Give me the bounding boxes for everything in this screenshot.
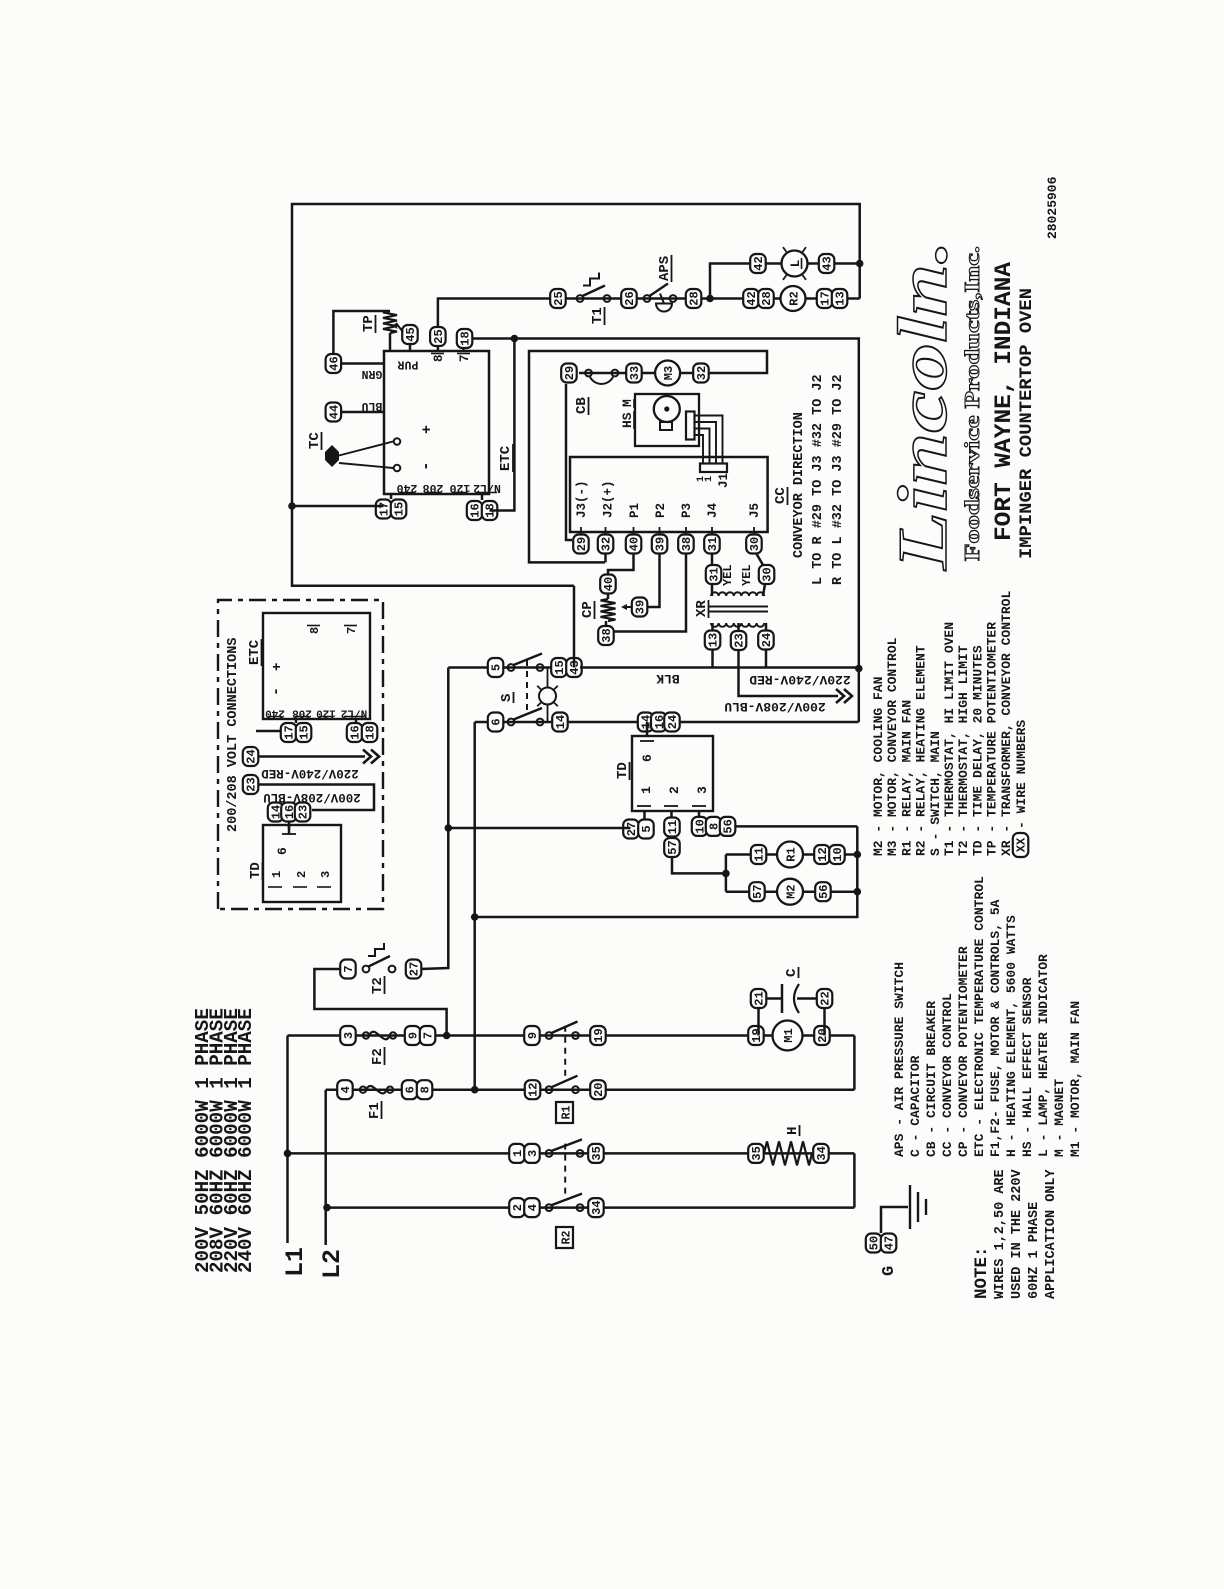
- svg-text:J4: J4: [706, 502, 720, 518]
- wire cluster to TDalt: [288, 821, 291, 829]
- wire XR sec top: [711, 584, 714, 596]
- tag 10-8-56 column: [692, 817, 708, 836]
- svg-text:40: 40: [628, 537, 642, 551]
- wire bus to S pole1: [573, 586, 576, 668]
- relay contact R2b: [546, 1204, 553, 1211]
- heating element H: [764, 1141, 812, 1165]
- tag 9 relay contact: [524, 1026, 540, 1045]
- tag 39 cp: [632, 598, 648, 617]
- svg-text:L - LAMP, HEATER INDICATOR: L - LAMP, HEATER INDICATOR: [1036, 954, 1051, 1157]
- svg-text:7: 7: [458, 354, 472, 362]
- pin TD-3: [698, 811, 701, 819]
- tag 31 cc: [704, 535, 720, 554]
- wire BLU alt: [258, 785, 374, 811]
- tag 33: [626, 364, 642, 383]
- wire heater row 35: [288, 1152, 855, 1155]
- switch S lamp: [539, 688, 556, 705]
- svg-text:29: 29: [575, 537, 589, 551]
- svg-text:CB - CIRCUIT BREAKER: CB - CIRCUIT BREAKER: [924, 1001, 939, 1157]
- svg-text:TD - TIME DELAY, 20 MINUTES: TD - TIME DELAY, 20 MINUTES: [970, 645, 985, 856]
- wire TC plus lead: [337, 442, 393, 457]
- tag 39 cc: [652, 535, 668, 554]
- pin TD-1: [643, 811, 646, 819]
- svg-text:7: 7: [342, 965, 356, 972]
- motor M3: [655, 361, 680, 386]
- svg-text:L1: L1: [281, 1247, 310, 1277]
- wire TC minus lead: [339, 463, 393, 468]
- svg-text:40: 40: [602, 577, 616, 591]
- svg-text:XR - TRANSFORMER, CONVEYOR CO: XR - TRANSFORMER, CONVEYOR CONTROL: [999, 591, 1014, 856]
- svg-text:28: 28: [688, 291, 702, 305]
- svg-text:27: 27: [408, 962, 422, 976]
- tag 35: [588, 1144, 604, 1163]
- wire 13 to BLK: [711, 650, 714, 668]
- wire 24 to BLK: [765, 650, 768, 668]
- tag 31 xr: [706, 565, 722, 584]
- tag 45: [402, 325, 418, 344]
- relay coil R1: [777, 842, 803, 868]
- svg-text:P2: P2: [654, 503, 668, 518]
- tag 16-18 alt: [347, 723, 363, 742]
- wire 17 to bus: [292, 505, 384, 508]
- svg-text:J5: J5: [748, 503, 762, 518]
- svg-text:5: 5: [640, 825, 654, 832]
- svg-text:HS - HALL EFFECT SENSOR: HS - HALL EFFECT SENSOR: [1020, 977, 1035, 1157]
- box ETC electronic temperature control: [384, 351, 489, 494]
- svg-text:BLU: BLU: [362, 399, 383, 412]
- wire M2R1 return bus: [475, 826, 858, 917]
- svg-text:17: 17: [819, 291, 833, 305]
- wire S pole2: [475, 721, 859, 724]
- legend wire numbers tag: [1013, 833, 1029, 857]
- svg-text:24: 24: [245, 749, 259, 763]
- node lineA-TD: [445, 824, 453, 832]
- box ETC alt: [263, 613, 370, 719]
- wire R1 coil row: [726, 853, 857, 856]
- svg-text:-: -: [268, 687, 285, 696]
- wire TP to 46: [333, 311, 390, 355]
- wire BLK: [580, 666, 859, 669]
- svg-text:240V 60HZ 6000W 1 PHASE: 240V 60HZ 6000W 1 PHASE: [235, 1008, 257, 1273]
- tag 5: [488, 658, 504, 677]
- tag 56 coil: [815, 882, 831, 901]
- tag cluster 14-16-24: [638, 713, 654, 732]
- svg-text:50: 50: [868, 1236, 882, 1250]
- svg-text:R2: R2: [561, 1231, 574, 1245]
- capacitor C: [781, 984, 784, 1013]
- svg-text:6: 6: [275, 847, 290, 855]
- svg-text:P3: P3: [680, 503, 694, 518]
- tag 24 xr: [758, 631, 774, 650]
- tag 34 heater: [813, 1144, 829, 1163]
- svg-text:47: 47: [883, 1236, 897, 1250]
- wire 56 to bus: [735, 825, 857, 828]
- wire 40 link: [608, 553, 634, 575]
- svg-text:R1 - RELAY, MAIN FAN: R1 - RELAY, MAIN FAN: [899, 700, 914, 856]
- wire T2 feed: [314, 969, 446, 1036]
- svg-text:7: 7: [422, 1032, 436, 1039]
- pins CC left edge: [580, 527, 582, 537]
- svg-text:42: 42: [752, 256, 766, 270]
- svg-text:57: 57: [666, 840, 680, 854]
- svg-text:R1: R1: [561, 1106, 574, 1120]
- svg-text:5: 5: [490, 664, 504, 671]
- wire 45 lead: [409, 344, 412, 351]
- svg-text:J1: J1: [717, 473, 731, 488]
- tag 12: [525, 1080, 541, 1099]
- svg-text:ETC - ELECTRONIC TEMPERATURE C: ETC - ELECTRONIC TEMPERATURE CONTROL: [972, 876, 987, 1157]
- box HS M: [635, 394, 699, 446]
- transformer XR: [711, 592, 764, 596]
- wire 30 link: [756, 553, 763, 565]
- label R1 box: [556, 1102, 573, 1123]
- tag 11 td: [664, 818, 680, 837]
- svg-text:220V/240V-RED: 220V/240V-RED: [261, 766, 359, 780]
- wire ground: [881, 1207, 908, 1233]
- svg-text:- WIRE NUMBERS: - WIRE NUMBERS: [1014, 720, 1029, 829]
- wire 18 jog: [490, 339, 515, 511]
- svg-text:WIRES 1,2,50 ARE: WIRES 1,2,50 ARE: [993, 1169, 1008, 1299]
- svg-text:+: +: [270, 663, 286, 671]
- svg-text:25: 25: [552, 291, 566, 305]
- svg-text:17: 17: [378, 502, 392, 516]
- svg-text:8: 8: [419, 1086, 433, 1093]
- tag 42-28 pair: [743, 289, 759, 308]
- svg-text:M - MAGNET: M - MAGNET: [1052, 1079, 1067, 1157]
- svg-text:L TO R #29 TO J3 #32 TO J2: L TO R #29 TO J3 #32 TO J2: [811, 374, 826, 585]
- wiper TP: [396, 323, 403, 332]
- tag 23 alt: [243, 775, 258, 794]
- magnet M rect: [660, 422, 672, 430]
- tag 30 xr: [759, 565, 775, 584]
- tag 24 alt: [243, 747, 258, 766]
- svg-text:35: 35: [750, 1146, 764, 1160]
- circuit breaker CB: [585, 370, 592, 377]
- svg-text:USED IN THE 220V: USED IN THE 220V: [1010, 1168, 1025, 1299]
- svg-text:F1,F2- FUSE, MOTOR & CONTROLS,: F1,F2- FUSE, MOTOR & CONTROLS, 5A: [988, 899, 1003, 1157]
- svg-text:T2 - THERMOSTAT, HIGH LIMIT: T2 - THERMOSTAT, HIGH LIMIT: [956, 645, 971, 856]
- svg-text:46: 46: [328, 356, 342, 370]
- svg-text:FORT WAYNE, INDIANA: FORT WAYNE, INDIANA: [991, 262, 1017, 541]
- relay R1 contact link: [564, 1022, 566, 1076]
- svg-text:21: 21: [753, 991, 767, 1005]
- svg-text:3: 3: [695, 786, 710, 794]
- svg-text:6: 6: [640, 754, 655, 762]
- node W1 tee: [511, 335, 519, 343]
- svg-text:19: 19: [592, 1028, 606, 1042]
- switch S pole2: [508, 719, 515, 726]
- svg-text:28025906: 28025906: [1045, 176, 1060, 239]
- relay coil R2: [781, 286, 806, 311]
- wire lamp branch: [710, 264, 750, 299]
- tag 6: [488, 713, 504, 732]
- tag 15-43 pair: [551, 658, 567, 677]
- svg-text:12: 12: [527, 1082, 541, 1096]
- tag 27 t2: [406, 960, 422, 979]
- svg-text:IMPINGER COUNTERTOP OVEN: IMPINGER COUNTERTOP OVEN: [1017, 288, 1037, 559]
- wire BLU lead: [341, 411, 384, 414]
- svg-text:J3(-): J3(-): [575, 480, 589, 518]
- wire M3 chain: [579, 372, 708, 375]
- wire heater row 34: [327, 1206, 854, 1209]
- svg-text:9: 9: [407, 1032, 421, 1039]
- tag 13 xr: [705, 631, 721, 650]
- air pressure switch APS: [644, 295, 651, 302]
- svg-text:39: 39: [654, 537, 668, 551]
- tag 35 heater: [748, 1144, 764, 1163]
- svg-text:16: 16: [349, 725, 363, 739]
- svg-text:M1 - MOTOR, MAIN FAN: M1 - MOTOR, MAIN FAN: [1068, 1001, 1083, 1157]
- ground symbol: [909, 1185, 911, 1229]
- svg-text:CP - CONVEYOR POTENTIOMETER: CP - CONVEYOR POTENTIOMETER: [956, 946, 971, 1157]
- svg-text:TP - TEMPERATURE POTENTIOMETE: TP - TEMPERATURE POTENTIOMETER: [985, 622, 1000, 856]
- tag 44: [326, 403, 342, 422]
- tag 38 cp: [598, 626, 614, 645]
- tag 42 lamp: [750, 254, 766, 273]
- svg-text:14: 14: [554, 715, 568, 729]
- svg-text:30: 30: [761, 567, 775, 581]
- tag 2-4 pair: [509, 1198, 525, 1217]
- connector J1 socket: [700, 464, 727, 473]
- tag 14: [552, 713, 568, 732]
- svg-text:6: 6: [490, 718, 504, 725]
- wire coil bar: [725, 855, 728, 892]
- svg-text:3: 3: [526, 1150, 540, 1157]
- svg-text:3: 3: [319, 871, 333, 878]
- wire 32 tag link: [604, 553, 607, 562]
- svg-text:30: 30: [748, 537, 762, 551]
- svg-text:M: M: [620, 399, 635, 407]
- tag 19 motor: [748, 1026, 764, 1045]
- svg-text:34: 34: [815, 1146, 829, 1160]
- svg-text:M2 - MOTOR, COOLING FAN: M2 - MOTOR, COOLING FAN: [871, 677, 886, 856]
- wire 38 link: [614, 553, 687, 632]
- svg-text:BLK: BLK: [656, 671, 680, 686]
- svg-text:Foodservice Products,Inc.: Foodservice Products,Inc.: [960, 246, 984, 561]
- potentiometer TP: [383, 311, 397, 333]
- tag 40 cp: [600, 575, 616, 594]
- svg-text:15: 15: [298, 725, 312, 739]
- fuse F2: [363, 1032, 369, 1038]
- tag 32 cb: [693, 364, 709, 383]
- wire M2 coil row: [726, 890, 857, 893]
- svg-text:23: 23: [245, 777, 259, 791]
- tag 17-15 pair etc: [376, 500, 392, 519]
- wire cap 21 link: [757, 1008, 760, 1036]
- svg-text:2: 2: [295, 871, 309, 878]
- svg-text:11: 11: [666, 820, 680, 834]
- wire 57 to coils: [672, 857, 726, 873]
- svg-text:CONVEYOR DIRECTION: CONVEYOR DIRECTION: [792, 412, 807, 558]
- svg-text:PUR: PUR: [398, 358, 419, 371]
- arrow RED chevrons: [363, 750, 371, 764]
- svg-text:+: +: [419, 425, 436, 434]
- svg-text:25: 25: [432, 329, 446, 343]
- svg-text:NOTE:: NOTE:: [972, 1246, 992, 1299]
- svg-text:M3 - MOTOR, CONVEYOR CONTROL: M3 - MOTOR, CONVEYOR CONTROL: [885, 637, 900, 856]
- svg-text:16: 16: [469, 503, 483, 517]
- thermocouple TC: [325, 445, 339, 467]
- svg-text:34: 34: [590, 1200, 604, 1214]
- svg-text:200/208 VOLT CONNECTIONS: 200/208 VOLT CONNECTIONS: [226, 638, 241, 832]
- svg-text:R2 - RELAY, HEATING ELEMENT: R2 - RELAY, HEATING ELEMENT: [914, 645, 929, 856]
- wire 24 lead: [765, 623, 768, 631]
- tag 29 cb: [561, 364, 577, 383]
- wire ETC 240 lead: [390, 494, 393, 499]
- svg-text:38: 38: [680, 537, 694, 551]
- svg-text:YEL: YEL: [740, 564, 754, 586]
- tag 50-47 pair: [866, 1234, 882, 1253]
- wire ETC NL2 lead: [481, 494, 484, 500]
- svg-text:13: 13: [834, 291, 848, 305]
- connector J1 plug: [686, 412, 695, 440]
- tag 22: [817, 989, 833, 1008]
- svg-text:35: 35: [590, 1146, 604, 1160]
- svg-text:GRN: GRN: [362, 367, 383, 380]
- svg-text:APS - AIR PRESSURE SWITCH: APS - AIR PRESSURE SWITCH: [892, 962, 907, 1157]
- wire L1 feed: [286, 1036, 289, 1244]
- svg-text:-: -: [417, 461, 435, 471]
- thermostat T1: [577, 295, 584, 302]
- relay R2 contact link: [564, 1139, 566, 1193]
- svg-text:18: 18: [364, 725, 378, 739]
- svg-text:11: 11: [753, 847, 767, 861]
- svg-text:8: 8: [432, 354, 446, 362]
- wire heater loop return: [853, 1153, 856, 1207]
- svg-text:18: 18: [459, 331, 473, 345]
- motor M conveyor: [654, 396, 680, 422]
- svg-text:57: 57: [751, 884, 765, 898]
- wire 39 link: [648, 553, 660, 607]
- svg-text:56: 56: [722, 819, 736, 833]
- fuse F1: [360, 1087, 366, 1093]
- tag 40 cc: [626, 535, 642, 554]
- wire alt 240 lead: [295, 719, 298, 723]
- svg-text:31: 31: [708, 567, 722, 581]
- switch S link: [526, 656, 528, 711]
- tag 46: [326, 354, 342, 373]
- svg-text:20: 20: [816, 1028, 830, 1042]
- node L1-heater tap: [284, 1150, 292, 1158]
- svg-text:M3: M3: [662, 366, 676, 380]
- tag 17-13 pair: [817, 289, 833, 308]
- svg-text:24: 24: [666, 715, 680, 729]
- wire 31 link: [711, 553, 714, 565]
- tag 29 cc: [573, 535, 589, 554]
- thermostat T2: [363, 966, 370, 973]
- svg-text:20: 20: [592, 1082, 606, 1096]
- label R2 box: [556, 1227, 573, 1248]
- svg-text:HS: HS: [620, 412, 635, 428]
- svg-text:26: 26: [623, 291, 637, 305]
- relay contact R1a: [546, 1032, 553, 1039]
- svg-text:13: 13: [707, 633, 721, 647]
- svg-text:XX: XX: [1015, 837, 1029, 852]
- node F1-lineB: [471, 1086, 479, 1094]
- wire 29 route: [566, 384, 572, 540]
- tag 12-10 pair: [814, 845, 830, 864]
- pin TD-6: [646, 722, 649, 736]
- svg-text:L2: L2: [318, 1249, 347, 1279]
- tag 9-7 pair: [405, 1026, 421, 1045]
- svg-text:32: 32: [695, 366, 709, 380]
- tag 32 cc: [598, 535, 614, 554]
- box TD: [632, 736, 713, 811]
- svg-text:J2(+): J2(+): [602, 480, 616, 518]
- tag 23 xr: [731, 631, 747, 650]
- tag 26: [621, 289, 637, 308]
- arrow BLU chevrons: [836, 689, 844, 703]
- tag 16-18 pair etc: [467, 501, 483, 520]
- wire main bus: [292, 204, 860, 586]
- wire 25 to T1: [438, 299, 550, 328]
- wire line B: [473, 722, 476, 1090]
- tag 27-5 pair: [623, 820, 639, 839]
- tag 28: [686, 289, 702, 308]
- wire 18 down bus W1: [472, 339, 859, 723]
- svg-text:44: 44: [328, 405, 342, 419]
- tag 19: [590, 1026, 606, 1045]
- wire alt NL2 lead: [355, 719, 358, 723]
- wire M1 loop return: [853, 1036, 856, 1090]
- node W1-RED: [855, 665, 863, 673]
- tag 38 cc: [678, 535, 694, 554]
- tag 34: [588, 1198, 604, 1217]
- node bus-ETC 240: [288, 502, 296, 510]
- tag 4: [337, 1080, 353, 1099]
- svg-text:M1: M1: [782, 1028, 796, 1042]
- wire line A: [421, 668, 448, 970]
- tag 57 td: [664, 838, 680, 857]
- wire BLU drop: [739, 650, 839, 696]
- tag 7 t2: [340, 960, 356, 979]
- svg-text:45: 45: [404, 327, 418, 341]
- svg-text:4: 4: [339, 1086, 353, 1093]
- node F2-T2 feed: [443, 1032, 451, 1040]
- pin TD-2: [670, 811, 673, 819]
- svg-text:38: 38: [600, 628, 614, 642]
- relay contact R2a: [546, 1150, 553, 1157]
- wire TD pin1 to lineA: [447, 827, 631, 830]
- svg-text:H - HEATING ELEMENT, 5600 WA: H - HEATING ELEMENT, 5600 WATTS: [1004, 915, 1019, 1157]
- tag 43 lamp: [819, 254, 835, 273]
- svg-text:T1 - THERMOSTAT, HI LIMIT OVE: T1 - THERMOSTAT, HI LIMIT OVEN: [942, 622, 957, 856]
- wiper CP: [623, 606, 632, 608]
- svg-text:31: 31: [706, 537, 720, 551]
- wire 23 lead: [737, 623, 740, 631]
- tag 3: [340, 1026, 356, 1045]
- wire lamp row: [750, 262, 860, 265]
- tag 20 motor: [814, 1026, 830, 1045]
- svg-text:200V/208V-BLU: 200V/208V-BLU: [724, 699, 825, 714]
- svg-text:C - CAPACITOR: C - CAPACITOR: [908, 1055, 923, 1157]
- svg-text:1: 1: [704, 476, 715, 482]
- tag 25 etc: [430, 327, 446, 346]
- svg-text:32: 32: [600, 537, 614, 551]
- svg-text:R TO L #32 TO J3 #29 TO J2: R TO L #32 TO J3 #29 TO J2: [831, 374, 846, 585]
- svg-text:15: 15: [393, 502, 407, 516]
- potentiometer CP: [601, 599, 616, 621]
- svg-text:19: 19: [750, 1028, 764, 1042]
- box 200-208 volt connections: [218, 600, 383, 909]
- node lineB-M2 return: [471, 913, 479, 921]
- tag 30 cc: [746, 535, 762, 554]
- box TD alt: [263, 825, 341, 902]
- svg-text:ETC: ETC: [498, 445, 514, 471]
- svg-text:9: 9: [526, 1032, 540, 1039]
- svg-text:60HZ 1 PHASE: 60HZ 1 PHASE: [1027, 1202, 1042, 1299]
- svg-text:23: 23: [297, 805, 311, 819]
